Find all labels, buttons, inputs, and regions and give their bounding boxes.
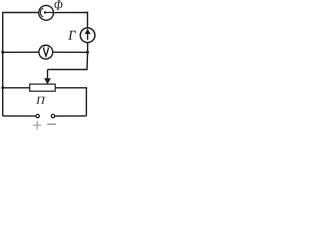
node voltmeter branch right junction (86, 51, 89, 54)
photocell F1 anode lead (45, 12, 54, 14)
battery plus terminal (36, 114, 39, 117)
wiper arrowhead (45, 79, 50, 84)
wire potentiometer right terminal to lower right rail (55, 88, 86, 116)
label G (Ghe) for galvanometer (68, 31, 75, 40)
node potentiometer left junction (1, 86, 4, 89)
label P (Pe) for potentiometer (36, 97, 45, 104)
label V inside voltmeter (43, 48, 49, 56)
label minus polarity (47, 123, 56, 125)
wire voltmeter branch left segment (3, 51, 39, 53)
wire left rail to potentiometer left terminal (3, 87, 30, 89)
galvanometer G needle shaft (87, 32, 89, 40)
galvanometer G needle arrowhead (85, 29, 90, 33)
wire right rail V-branch node down to wiper corner (48, 52, 88, 69)
photocell F1 anode dot (44, 11, 46, 13)
voltmeter V body (39, 45, 53, 59)
wire right rail from top corner to galvanometer (87, 12, 89, 28)
photocell F1 cathode arc (40, 8, 43, 17)
wire wiper drop (47, 70, 49, 80)
wire bottom left segment (3, 115, 36, 117)
wire top segment right of photocell (54, 12, 88, 14)
wire bottom right segment (55, 115, 87, 117)
label F (phi) for photocell (54, 0, 62, 9)
node voltmeter branch left junction (1, 51, 4, 54)
wire voltmeter branch right segment (53, 51, 88, 53)
photocell F1 body (39, 5, 54, 20)
battery minus terminal (51, 114, 54, 117)
label plus polarity (33, 121, 41, 129)
wire left rail (2, 12, 4, 116)
galvanometer G body (80, 28, 95, 43)
wire right rail galvanometer to V-branch node (87, 43, 89, 53)
wire top segment left of photocell (2, 12, 38, 14)
potentiometer P body (30, 84, 56, 91)
